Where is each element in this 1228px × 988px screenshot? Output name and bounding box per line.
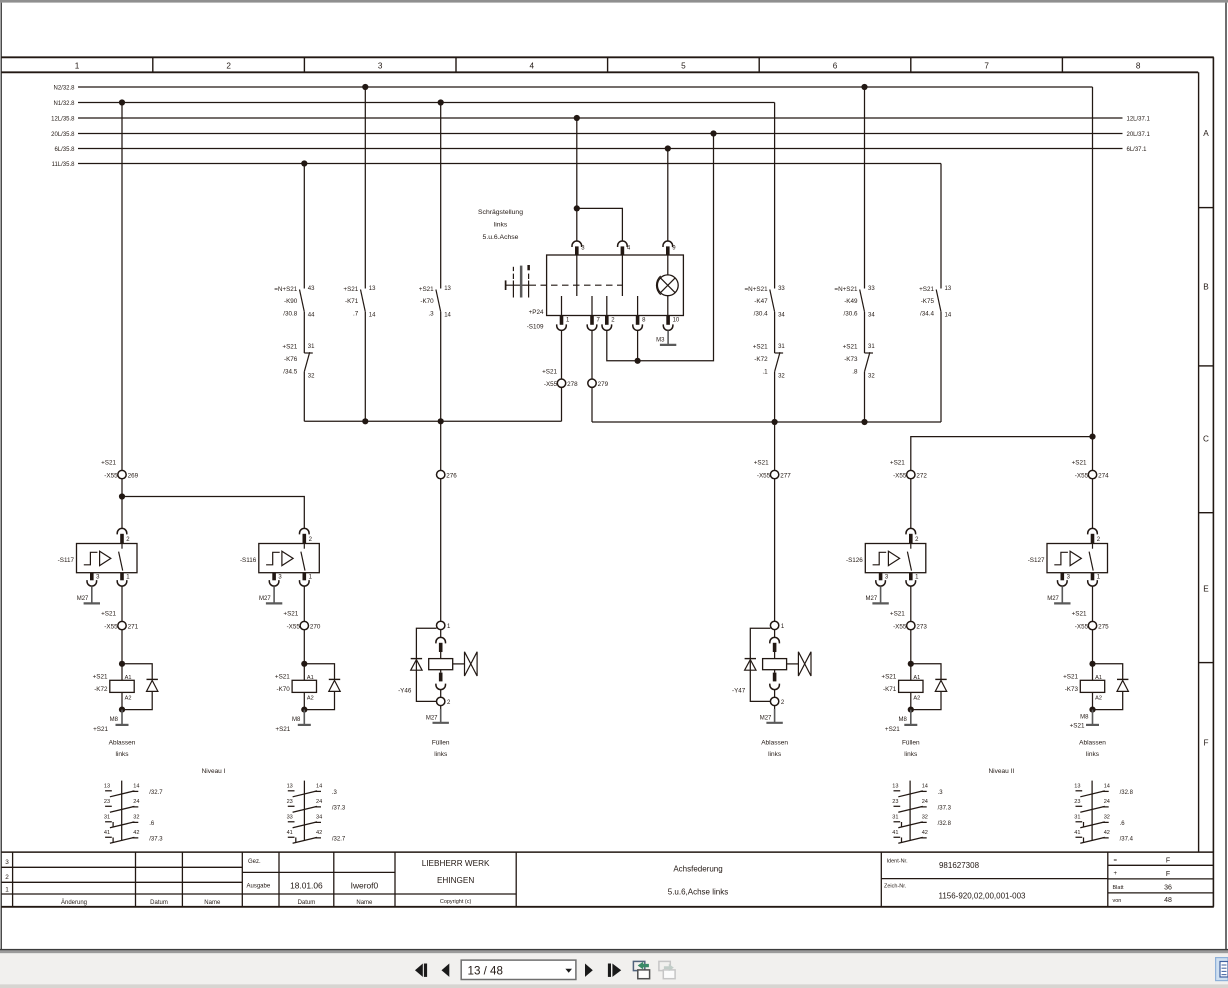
svg-text:14: 14 [922, 784, 928, 790]
svg-text:31: 31 [104, 815, 110, 821]
wire S127 pin1 to terminal 275 [1092, 586, 1094, 621]
svg-text:33: 33 [287, 815, 293, 821]
svg-text:-X55: -X55 [544, 381, 558, 388]
svg-text:+S21: +S21 [275, 726, 290, 733]
svg-text:M27: M27 [760, 716, 772, 722]
svg-text:-K72: -K72 [94, 686, 108, 693]
svg-text:-K76: -K76 [284, 356, 298, 363]
svg-text:13: 13 [1074, 784, 1080, 790]
svg-text:Niveau I: Niveau I [202, 768, 226, 775]
wire K76 to left bus [303, 372, 305, 422]
svg-text:/30.8: /30.8 [283, 310, 298, 317]
svg-text:42: 42 [316, 830, 322, 836]
wire terminal 276 to valve Y46 [440, 479, 442, 621]
wire terminal 271 to coil K72 [121, 630, 123, 664]
svg-text:M27: M27 [426, 716, 438, 722]
svg-text:Datum: Datum [298, 900, 316, 906]
svg-text:+S21: +S21 [1072, 610, 1087, 617]
ground M27 at S126 pin 3 [880, 586, 882, 603]
relay coil +S21 -K70 with suppressor diode [301, 661, 307, 667]
svg-text:-K75: -K75 [921, 298, 935, 305]
wire terminal 269 to S117/S116 branch [121, 479, 123, 528]
svg-text:+: + [1114, 871, 1118, 877]
svg-text:+S21: +S21 [101, 610, 116, 617]
ground M8 under K73 [1092, 710, 1094, 725]
svg-text:A2: A2 [125, 696, 132, 702]
svg-text:=: = [1114, 858, 1118, 864]
contact cross-reference table K71 [909, 781, 911, 841]
svg-text:32: 32 [133, 815, 139, 821]
svg-text:11L/35.8: 11L/35.8 [52, 162, 76, 168]
svg-text:M8: M8 [110, 717, 119, 723]
svg-text:Niveau II: Niveau II [988, 768, 1014, 775]
svg-text:A: A [1203, 129, 1209, 138]
toolbar button previous-page-with-bar [415, 964, 423, 977]
relay coil +S21 -K72 with suppressor diode [119, 661, 125, 667]
contact cross-reference table K73 [1091, 781, 1093, 841]
svg-text:270: 270 [310, 623, 321, 630]
terminal -X55:275 [1088, 621, 1096, 629]
wire S126 pin1 to terminal 273 [910, 586, 912, 621]
svg-text:.3: .3 [332, 790, 338, 796]
wire terminal 277 to valve Y47 [774, 479, 776, 621]
svg-text:5.u.6,Achse links: 5.u.6,Achse links [668, 888, 728, 897]
svg-text:5.u.6.Achse: 5.u.6.Achse [483, 234, 519, 241]
svg-text:2: 2 [5, 874, 9, 881]
wire terminal 270 to coil K70 [303, 630, 305, 664]
terminal -X55:277 [770, 470, 778, 478]
svg-text:4: 4 [530, 62, 535, 71]
svg-text:A2: A2 [1095, 696, 1102, 702]
svg-text:Ausgabe: Ausgabe [247, 884, 271, 890]
svg-text:-S127: -S127 [1028, 557, 1045, 564]
terminal -X55:276 [437, 470, 445, 478]
svg-text:24: 24 [133, 799, 139, 805]
frame: right row-letter band [1199, 207, 1214, 209]
svg-text:43: 43 [308, 286, 315, 292]
svg-text:8: 8 [1136, 62, 1141, 71]
contact +S21 -K75 13/14 [940, 164, 942, 289]
svg-text:275: 275 [1098, 623, 1109, 630]
svg-text:-X55: -X55 [893, 623, 907, 630]
svg-text:=N+S21: =N+S21 [274, 286, 298, 293]
svg-text:.1: .1 [762, 368, 768, 375]
svg-text:13: 13 [287, 784, 293, 790]
svg-text:276: 276 [446, 472, 457, 479]
wire terminal 272 to sensor S126 [910, 479, 912, 528]
toolbar button previous-view [633, 961, 644, 970]
svg-text:Gez.: Gez. [248, 859, 261, 865]
svg-text:-K71: -K71 [883, 686, 897, 693]
ground M8 under K70 [303, 710, 305, 725]
svg-text:/34.4: /34.4 [920, 310, 935, 317]
relay coil +S21 -K71 with suppressor diode [908, 661, 914, 667]
svg-text:6: 6 [833, 62, 838, 71]
svg-text:+S21: +S21 [1072, 459, 1087, 466]
toolbar button next-view (disabled) [659, 961, 670, 970]
svg-text:.8: .8 [852, 368, 858, 375]
ground M27 at S117 pin 3 [91, 586, 93, 603]
svg-text:-X55: -X55 [104, 623, 118, 630]
svg-text:41: 41 [287, 830, 293, 836]
svg-text:-K73: -K73 [1065, 686, 1079, 693]
svg-text:/32.7: /32.7 [149, 790, 163, 796]
svg-text:N2/32.8: N2/32.8 [53, 85, 75, 91]
contact +S21 -K70 13/14 [440, 103, 442, 289]
svg-text:13 / 48: 13 / 48 [468, 965, 503, 978]
svg-text:23: 23 [1074, 799, 1080, 805]
svg-text:41: 41 [1074, 830, 1080, 836]
svg-text:=N+S21: =N+S21 [834, 286, 858, 293]
svg-text:.3: .3 [938, 790, 944, 796]
contact =N+S21 -K47 33/34 [774, 103, 776, 289]
wire terminal 273 to coil K71 [910, 630, 912, 664]
svg-text:42: 42 [133, 830, 139, 836]
contact +S21 -K72 31/32 (NC) [775, 352, 784, 354]
svg-text:2: 2 [226, 62, 231, 71]
toolbar page number box 13 / 48 [461, 960, 576, 979]
contact cross-reference table K70 [303, 781, 305, 841]
solenoid valve -Y47 (Ablassen links) [770, 621, 778, 629]
toolbar button previous-page [442, 964, 450, 977]
svg-text:+S21: +S21 [881, 673, 896, 680]
svg-text:.6: .6 [149, 821, 155, 827]
wire Y47 tap from right bus [774, 422, 776, 470]
svg-text:32: 32 [308, 374, 315, 380]
taskbar document button bottom right [1216, 958, 1228, 981]
wire S109 pin7 to terminal 279 [591, 330, 593, 379]
svg-text:14: 14 [945, 313, 952, 319]
svg-text:-K71: -K71 [345, 298, 359, 305]
svg-text:+S21: +S21 [919, 286, 934, 293]
toolbar button next-page [585, 964, 593, 977]
terminal -X55:269 [118, 470, 126, 478]
svg-text:3: 3 [5, 859, 9, 866]
svg-text:/30.4: /30.4 [754, 310, 769, 317]
wire S117 pin1 to terminal 271 [121, 586, 123, 621]
switch block +P24 -S109 [547, 255, 684, 316]
svg-text:+S21: +S21 [843, 343, 858, 350]
wire S109 pins 2,8 to 20L riser [607, 134, 714, 361]
svg-text:von: von [1113, 898, 1122, 904]
svg-text:23: 23 [287, 799, 293, 805]
svg-text:31: 31 [892, 815, 898, 821]
svg-text:Zeich-Nr.: Zeich-Nr. [884, 884, 907, 890]
svg-text:41: 41 [104, 830, 110, 836]
svg-text:Blatt: Blatt [1113, 885, 1124, 891]
svg-text:31: 31 [778, 344, 785, 350]
svg-text:Copyright (c): Copyright (c) [440, 899, 472, 905]
svg-text:N1/32.8: N1/32.8 [53, 101, 75, 107]
svg-text:-X55: -X55 [287, 623, 301, 630]
svg-text:-Y46: -Y46 [398, 687, 412, 694]
contact =N+S21 -K49 33/34 [864, 87, 866, 289]
svg-text:274: 274 [1098, 472, 1109, 479]
ground M3 at S109 pin 10 [667, 330, 669, 345]
wire S116 pin1 to terminal 270 [303, 586, 305, 621]
key-switch actuator [505, 280, 507, 290]
indicator lamp in S109 [667, 255, 669, 275]
svg-text:/32.7: /32.7 [332, 836, 346, 842]
svg-text:+S21: +S21 [419, 286, 434, 293]
svg-text:13: 13 [945, 286, 952, 292]
svg-text:links: links [904, 751, 918, 758]
terminal -X55:271 [118, 621, 126, 629]
ground M8 under K72 [121, 710, 123, 725]
svg-text:M8: M8 [898, 717, 907, 723]
wire N1 feeder to terminal 269 [121, 103, 123, 471]
svg-text:A2: A2 [307, 696, 314, 702]
svg-text:.6: .6 [1120, 821, 1126, 827]
svg-text:Ablassen: Ablassen [761, 740, 788, 747]
svg-text:36: 36 [1164, 885, 1172, 892]
wire K49 to K73 [864, 312, 866, 353]
svg-text:Ident-Nr.: Ident-Nr. [887, 859, 909, 865]
svg-text:42: 42 [1104, 830, 1110, 836]
svg-text:-K47: -K47 [754, 298, 768, 305]
svg-text:B: B [1203, 283, 1209, 292]
level sensor -S127 [1047, 544, 1108, 573]
svg-text:E: E [1203, 585, 1209, 594]
svg-text:+S21: +S21 [343, 286, 358, 293]
svg-text:13: 13 [369, 286, 376, 292]
wire terminal 278 to left bus [561, 387, 563, 421]
ground M27 at S127 pin 3 [1061, 586, 1063, 603]
svg-text:18.01.06: 18.01.06 [290, 880, 323, 890]
svg-text:A1: A1 [307, 675, 314, 681]
svg-text:+S21: +S21 [101, 459, 116, 466]
terminal -X55:274 [1088, 470, 1096, 478]
svg-text:-S116: -S116 [240, 557, 257, 564]
svg-text:+S21: +S21 [1063, 673, 1078, 680]
svg-text:32: 32 [1104, 815, 1110, 821]
svg-text:273: 273 [916, 623, 927, 630]
wire S109 pin1 to terminal 278 [561, 330, 563, 379]
svg-text:M8: M8 [292, 717, 301, 723]
svg-text:/37.3: /37.3 [938, 805, 952, 811]
svg-text:-X55: -X55 [1075, 472, 1089, 479]
svg-text:13: 13 [104, 784, 110, 790]
svg-text:Änderung: Änderung [61, 899, 87, 906]
svg-text:6L/35.8: 6L/35.8 [54, 147, 75, 153]
svg-text:32: 32 [868, 374, 875, 380]
svg-text:/37.3: /37.3 [149, 836, 163, 842]
wire 6L feeder to S109 pin 9 [667, 149, 669, 242]
svg-text:23: 23 [892, 799, 898, 805]
wire Y46 tap from left bus [440, 421, 442, 470]
svg-text:48: 48 [1164, 897, 1172, 904]
svg-text:33: 33 [778, 286, 785, 292]
svg-text:31: 31 [868, 344, 875, 350]
svg-text:14: 14 [369, 313, 376, 319]
svg-text:A2: A2 [913, 696, 920, 702]
svg-text:Datum: Datum [150, 900, 168, 906]
contact +S21 -K71 13/14 [364, 87, 366, 289]
svg-text:.7: .7 [353, 310, 359, 317]
svg-text:+S21: +S21 [282, 343, 297, 350]
svg-text:F: F [1166, 871, 1170, 878]
svg-text:A1: A1 [913, 675, 920, 681]
svg-text:24: 24 [316, 799, 322, 805]
svg-text:/32.8: /32.8 [1120, 790, 1134, 796]
svg-text:269: 269 [128, 472, 139, 479]
svg-text:277: 277 [780, 472, 791, 479]
svg-text:links: links [1086, 751, 1100, 758]
left bus wire [304, 420, 561, 422]
svg-text:links: links [434, 751, 448, 758]
svg-text:32: 32 [778, 374, 785, 380]
wire N2 feeder to S127 column [1092, 87, 1094, 437]
svg-text:14: 14 [133, 784, 139, 790]
svg-text:/32.8: /32.8 [938, 821, 952, 827]
wire S127 column to terminal 274 [1092, 437, 1094, 471]
ground M27 at S116 pin 3 [273, 586, 275, 603]
toolbar button next-page-with-bar [608, 964, 611, 977]
mechanical dashed link [506, 284, 536, 286]
terminal -X55:278 [557, 379, 565, 387]
svg-text:-K70: -K70 [420, 298, 434, 305]
svg-text:14: 14 [444, 313, 451, 319]
svg-text:1156-920,02,00,001-003: 1156-920,02,00,001-003 [938, 892, 1026, 901]
svg-text:links: links [115, 751, 129, 758]
svg-text:Ablassen: Ablassen [1079, 740, 1106, 747]
wire K90 to K76 [303, 312, 305, 353]
contact +S21 -K76 31/32 (NC) [304, 352, 313, 354]
svg-text:Achsfederung: Achsfederung [673, 865, 722, 874]
svg-text:-K49: -K49 [844, 298, 858, 305]
terminal -X55:273 [907, 621, 915, 629]
wire K73 to right bus [864, 372, 866, 422]
svg-text:Füllen: Füllen [902, 740, 920, 747]
svg-text:44: 44 [308, 313, 315, 319]
svg-text:F: F [1203, 739, 1208, 748]
svg-text:-X55: -X55 [104, 472, 118, 479]
svg-text:14: 14 [1104, 784, 1110, 790]
svg-text:Iwerof0: Iwerof0 [351, 880, 379, 890]
svg-text:-K72: -K72 [754, 356, 768, 363]
svg-text:Schrägstellung: Schrägstellung [478, 209, 523, 216]
svg-text:31: 31 [308, 344, 315, 350]
svg-text:F: F [1166, 858, 1170, 865]
wire K71 to left bus [364, 312, 366, 422]
terminal -X55:272 [907, 470, 915, 478]
solenoid valve -Y46 (Fuellen links) [437, 621, 445, 629]
svg-text:+S21: +S21 [1070, 723, 1085, 730]
svg-text:+P24: +P24 [529, 309, 544, 316]
right bus wire [592, 421, 941, 423]
svg-text:1: 1 [5, 886, 9, 893]
svg-text:3: 3 [378, 62, 383, 71]
svg-text:+S21: +S21 [890, 610, 905, 617]
wire terminal 275 to coil K73 [1092, 630, 1094, 664]
svg-text:42: 42 [922, 830, 928, 836]
svg-text:+S21: +S21 [93, 726, 108, 733]
svg-text:-Y47: -Y47 [732, 687, 746, 694]
svg-text:+S21: +S21 [275, 673, 290, 680]
title block [1, 851, 1214, 853]
svg-text:Ablassen: Ablassen [109, 740, 136, 747]
svg-text:-K70: -K70 [276, 686, 290, 693]
svg-text:+S21: +S21 [754, 459, 769, 466]
svg-text:A1: A1 [1095, 675, 1102, 681]
wire terminal 274 to sensor S127 [1092, 479, 1094, 528]
svg-text:33: 33 [868, 286, 875, 292]
svg-text:+S21: +S21 [283, 610, 298, 617]
svg-text:279: 279 [598, 381, 609, 388]
svg-text:6L/37.1: 6L/37.1 [1127, 147, 1148, 153]
svg-text:20L/35.8: 20L/35.8 [51, 132, 75, 138]
svg-text:34: 34 [868, 313, 875, 319]
svg-text:links: links [494, 222, 508, 229]
contact =N+S21 -K90 43/44 [303, 164, 305, 289]
svg-text:24: 24 [1104, 799, 1110, 805]
svg-text:13: 13 [444, 286, 451, 292]
svg-text:/34.5: /34.5 [283, 368, 298, 375]
svg-text:/30.6: /30.6 [843, 310, 858, 317]
svg-text:.3: .3 [428, 310, 434, 317]
relay coil +S21 -K73 with suppressor diode [1089, 661, 1095, 667]
svg-text:-X55: -X55 [893, 472, 907, 479]
svg-text:+S21: +S21 [890, 459, 905, 466]
svg-text:271: 271 [128, 623, 139, 630]
level sensor -S116 [259, 544, 320, 573]
svg-text:+S21: +S21 [542, 369, 557, 376]
svg-text:24: 24 [922, 799, 928, 805]
svg-text:M8: M8 [1080, 715, 1089, 721]
svg-text:5: 5 [681, 62, 686, 71]
svg-text:-S109: -S109 [527, 324, 544, 331]
svg-text:M27: M27 [77, 596, 89, 602]
wire K70 to left bus [440, 312, 442, 422]
svg-text:-K90: -K90 [284, 298, 298, 305]
contact +S21 -K73 31/32 (NC) [865, 352, 874, 354]
svg-text:links: links [768, 751, 782, 758]
svg-text:34: 34 [316, 815, 322, 821]
contact cross-reference table K72 [121, 781, 123, 841]
svg-text:-K73: -K73 [844, 356, 858, 363]
svg-text:-X55: -X55 [1075, 623, 1089, 630]
terminal -X55:270 [300, 621, 308, 629]
svg-text:23: 23 [104, 799, 110, 805]
svg-text:20L/37.1: 20L/37.1 [1127, 132, 1151, 138]
svg-text:Füllen: Füllen [432, 740, 450, 747]
svg-text:A1: A1 [125, 675, 132, 681]
wire K47 to K72 [774, 312, 776, 353]
wire K72 to right bus [774, 372, 776, 422]
svg-text:EHINGEN: EHINGEN [437, 876, 474, 885]
wire 12L feeder to S109 pins 3 and 4 [576, 118, 578, 241]
svg-text:-X55: -X55 [757, 472, 771, 479]
svg-text:M27: M27 [866, 596, 878, 602]
svg-text:12L/37.1: 12L/37.1 [1127, 116, 1151, 122]
svg-text:Name: Name [204, 900, 221, 906]
svg-text:+S21: +S21 [885, 726, 900, 733]
terminal -X55:279 [588, 379, 596, 387]
viewer toolbar [0, 949, 1228, 951]
svg-text:M27: M27 [1047, 596, 1059, 602]
svg-text:+S21: +S21 [93, 673, 108, 680]
svg-text:272: 272 [916, 472, 927, 479]
svg-text:-S117: -S117 [58, 557, 75, 564]
branch wire to S126 [911, 437, 1093, 471]
level sensor -S126 [865, 544, 926, 573]
svg-text:32: 32 [922, 815, 928, 821]
svg-text:/37.3: /37.3 [332, 805, 346, 811]
svg-text:M3: M3 [656, 338, 665, 344]
svg-text:981627308: 981627308 [939, 861, 980, 870]
wire terminal 279 to right bus [591, 387, 593, 422]
svg-text:14: 14 [316, 784, 322, 790]
